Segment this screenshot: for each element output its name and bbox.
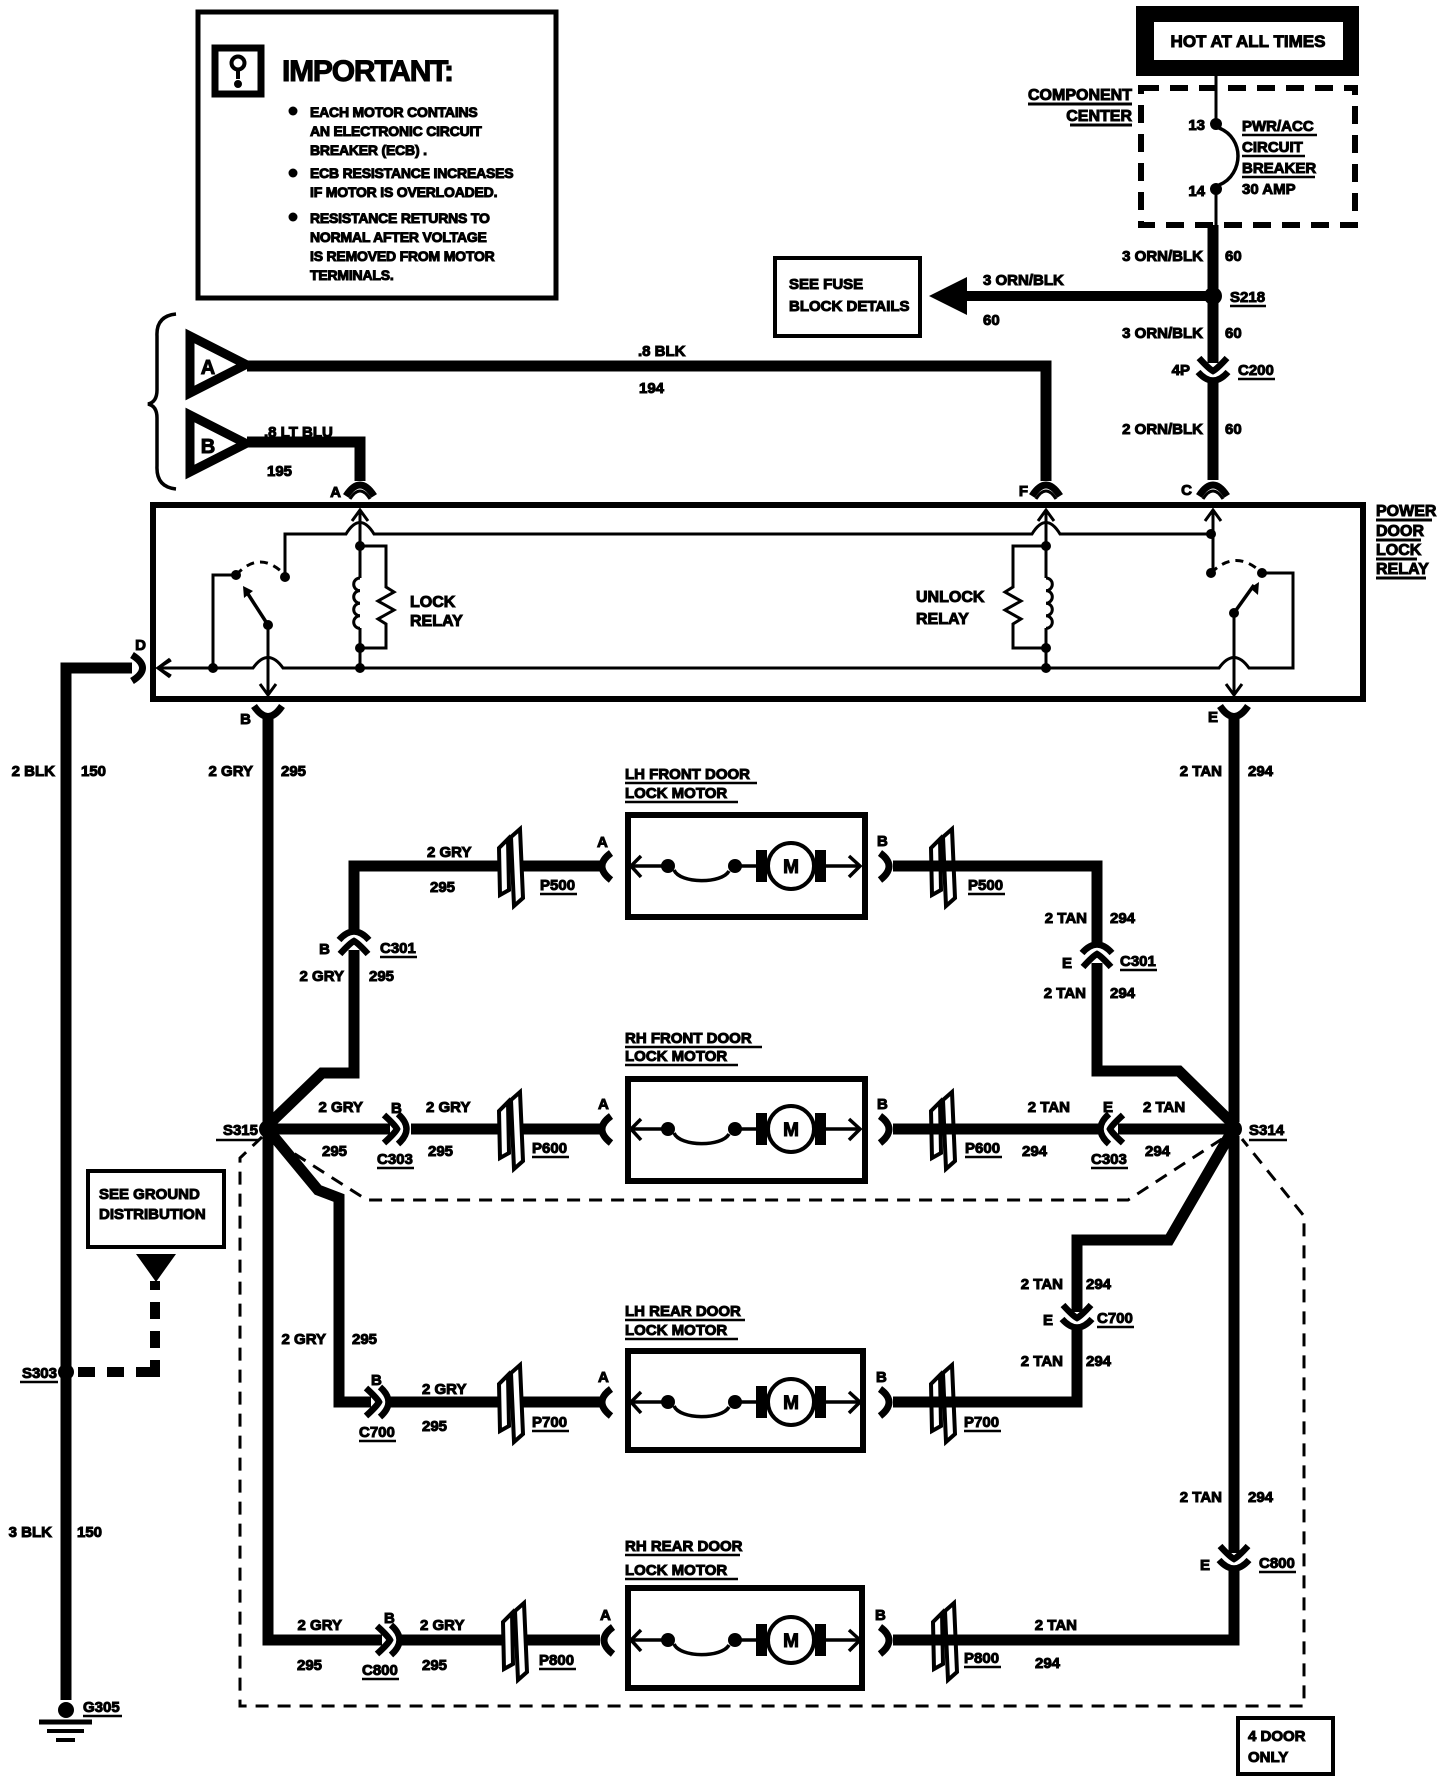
- svg-text:A: A: [600, 1607, 611, 1624]
- svg-text:295: 295: [422, 1418, 447, 1435]
- svg-text:IS REMOVED FROM MOTOR: IS REMOVED FROM MOTOR: [310, 248, 495, 264]
- svg-text:UNLOCK: UNLOCK: [916, 589, 985, 606]
- note box IMPORTANT: [198, 12, 556, 298]
- svg-text:LOCK MOTOR: LOCK MOTOR: [625, 1048, 727, 1065]
- svg-text:60: 60: [983, 312, 1000, 329]
- unlock relay coil and resistor: [916, 541, 1052, 668]
- grommet connector P600 (right): [931, 1092, 1002, 1169]
- component center dashed box: [1141, 88, 1355, 225]
- splice S303: [20, 1364, 74, 1382]
- svg-text:B: B: [391, 1100, 402, 1117]
- svg-text:C700: C700: [359, 1424, 395, 1441]
- svg-text:LOCK MOTOR: LOCK MOTOR: [625, 785, 727, 802]
- svg-text:C301: C301: [380, 940, 416, 957]
- wire 3 ORN/BLK 60 arrow to fuse block: [929, 272, 1206, 329]
- svg-text:2 TAN: 2 TAN: [1044, 985, 1086, 1002]
- svg-text:A: A: [598, 1096, 609, 1113]
- svg-text:2 TAN: 2 TAN: [1035, 1617, 1077, 1634]
- relay terminal A: [330, 484, 374, 546]
- svg-text:60: 60: [1225, 248, 1242, 265]
- svg-text:2 GRY: 2 GRY: [422, 1381, 466, 1398]
- svg-text:2 GRY: 2 GRY: [420, 1617, 464, 1634]
- svg-text:14: 14: [1188, 183, 1205, 200]
- svg-text:294: 294: [1248, 1489, 1274, 1506]
- grommet connector P600 (left): [499, 1092, 569, 1169]
- svg-text:POWER: POWER: [1376, 503, 1437, 520]
- svg-text:294: 294: [1110, 910, 1136, 927]
- svg-text:2 GRY: 2 GRY: [300, 968, 344, 985]
- svg-text:B: B: [875, 1607, 886, 1624]
- unlock relay switch: [1206, 561, 1267, 696]
- svg-text:F: F: [1019, 483, 1028, 500]
- svg-text:295: 295: [428, 1143, 453, 1160]
- wire 2 TAN 294: motor B via C301 to S314: [893, 866, 1235, 1126]
- svg-text:S218: S218: [1230, 289, 1265, 306]
- svg-text:294: 294: [1022, 1143, 1048, 1160]
- svg-text:2 TAN: 2 TAN: [1021, 1353, 1063, 1370]
- svg-text:60: 60: [1225, 421, 1242, 438]
- svg-text:P800: P800: [964, 1650, 999, 1667]
- relay internal line 1 (C feed bus): [285, 523, 1211, 578]
- svg-text:SEE FUSE: SEE FUSE: [789, 276, 863, 293]
- svg-text:2 TAN: 2 TAN: [1021, 1276, 1063, 1293]
- connector C800 (left, B): [362, 1610, 400, 1679]
- grommet triangle A: [190, 336, 246, 393]
- wire 2 ORN/BLK 60: C200 to relay terminal C: [1122, 379, 1242, 480]
- connector C303 (left, B): [377, 1100, 414, 1168]
- svg-text:295: 295: [430, 879, 455, 896]
- label POWER DOOR LOCK RELAY: [1376, 503, 1437, 578]
- wire 2 TAN 294: relay E to S314: [1180, 716, 1274, 1122]
- svg-text:E: E: [1200, 1557, 1210, 1574]
- svg-text:E: E: [1208, 709, 1218, 726]
- svg-text:2 TAN: 2 TAN: [1180, 1489, 1222, 1506]
- wire 2 BLK 150: relay D to S303 and G305: [9, 668, 132, 1700]
- wire 2 GRY 295: S315 via C301 to LH front door motor: [266, 844, 600, 1127]
- svg-text:RH REAR DOOR: RH REAR DOOR: [625, 1538, 743, 1555]
- wire 2 GRY 295: S315 via C303 to RH front door motor: [274, 1099, 600, 1160]
- svg-text:2 GRY: 2 GRY: [426, 1099, 470, 1116]
- svg-text:2 GRY: 2 GRY: [427, 844, 471, 861]
- svg-text:M: M: [783, 1393, 799, 1414]
- svg-text:E: E: [1062, 955, 1072, 972]
- svg-text:2 GRY: 2 GRY: [282, 1331, 326, 1348]
- svg-text:295: 295: [422, 1657, 447, 1674]
- svg-text:COMPONENT: COMPONENT: [1028, 87, 1132, 104]
- triangle arrow to see-ground-distribution: [136, 1254, 176, 1282]
- svg-text:LH FRONT DOOR: LH FRONT DOOR: [625, 766, 750, 783]
- svg-text:C303: C303: [1091, 1151, 1127, 1168]
- svg-text:RH FRONT DOOR: RH FRONT DOOR: [625, 1030, 752, 1047]
- svg-text:LH REAR DOOR: LH REAR DOOR: [625, 1303, 741, 1320]
- circuit breaker PWR/ACC 30A (pins 13,14): [1188, 117, 1317, 226]
- junction dots on line 2: [208, 663, 218, 673]
- svg-text:G305: G305: [83, 1699, 120, 1716]
- svg-text:IF MOTOR IS OVERLOADED.: IF MOTOR IS OVERLOADED.: [310, 184, 497, 200]
- svg-text:294: 294: [1110, 985, 1136, 1002]
- svg-text:.8 LT BLU: .8 LT BLU: [264, 424, 333, 441]
- wire 2 GRY 295: S315 via C700 to LH rear door motor: [270, 1132, 600, 1435]
- svg-text:BREAKER: BREAKER: [1242, 160, 1316, 177]
- label COMPONENT CENTER: [1028, 87, 1132, 125]
- svg-text:3 ORN/BLK: 3 ORN/BLK: [983, 272, 1064, 289]
- grommet connector P800 (left): [503, 1603, 576, 1680]
- svg-text:B: B: [371, 1372, 382, 1389]
- svg-text:C700: C700: [1097, 1310, 1133, 1327]
- connector C700 (right, E): [1043, 1305, 1134, 1329]
- note box SEE FUSE BLOCK DETAILS: [775, 258, 920, 336]
- svg-text:C800: C800: [1259, 1555, 1295, 1572]
- lock relay switch: [213, 562, 290, 695]
- svg-text:EACH MOTOR CONTAINS: EACH MOTOR CONTAINS: [310, 104, 478, 120]
- svg-text:294: 294: [1086, 1353, 1112, 1370]
- svg-text:P500: P500: [968, 877, 1003, 894]
- svg-text:TERMINALS.: TERMINALS.: [310, 267, 394, 283]
- svg-text:RELAY: RELAY: [916, 611, 969, 628]
- motor terminal A (RH rear): [600, 1607, 613, 1654]
- RH rear door lock motor: [625, 1538, 862, 1688]
- wire 3 ORN/BLK 60: breaker to S218: [1122, 225, 1242, 292]
- svg-text:BREAKER (ECB) .: BREAKER (ECB) .: [310, 142, 427, 158]
- svg-text:295: 295: [352, 1331, 377, 1348]
- svg-text:150: 150: [77, 1524, 102, 1541]
- svg-text:2 GRY: 2 GRY: [209, 763, 253, 780]
- svg-text:E: E: [1043, 1312, 1053, 1329]
- connector C200 4P: [1172, 358, 1275, 381]
- svg-text:4P: 4P: [1172, 362, 1190, 379]
- svg-text:P700: P700: [532, 1414, 567, 1431]
- svg-text:P500: P500: [540, 877, 575, 894]
- svg-text:194: 194: [639, 380, 665, 397]
- svg-text:2 ORN/BLK: 2 ORN/BLK: [1122, 421, 1203, 438]
- motor terminal A (RH front): [598, 1096, 611, 1143]
- svg-text:C301: C301: [1120, 953, 1156, 970]
- svg-text:DISTRIBUTION: DISTRIBUTION: [99, 1206, 206, 1223]
- svg-text:LOCK: LOCK: [1376, 542, 1422, 559]
- svg-text:LOCK MOTOR: LOCK MOTOR: [625, 1322, 727, 1339]
- svg-text:2 TAN: 2 TAN: [1045, 910, 1087, 927]
- svg-text:RELAY: RELAY: [410, 613, 463, 630]
- svg-text:2 GRY: 2 GRY: [298, 1617, 342, 1634]
- power door lock relay box: [153, 505, 1363, 699]
- LH front door lock motor: [625, 766, 865, 917]
- svg-text:2 TAN: 2 TAN: [1180, 763, 1222, 780]
- motor terminal A (LH front): [597, 834, 611, 880]
- svg-text:LOCK: LOCK: [410, 594, 456, 611]
- svg-text:A: A: [201, 357, 215, 379]
- motor terminal B (LH front): [877, 833, 889, 880]
- svg-text:CIRCUIT: CIRCUIT: [1242, 139, 1303, 156]
- connector C303 (right, E): [1091, 1099, 1128, 1168]
- svg-text:HOT AT ALL TIMES: HOT AT ALL TIMES: [1171, 32, 1326, 51]
- motor terminal A (LH rear): [598, 1369, 611, 1416]
- grommet connector P700 (right): [931, 1365, 1001, 1442]
- wire .8 LT BLU 195: triangle B to relay terminal A: [247, 424, 360, 481]
- svg-text:B: B: [877, 833, 888, 850]
- svg-text:3 ORN/BLK: 3 ORN/BLK: [1122, 248, 1203, 265]
- svg-text:M: M: [783, 857, 799, 878]
- svg-text:4 DOOR: 4 DOOR: [1248, 1728, 1306, 1745]
- svg-text:3 BLK: 3 BLK: [9, 1524, 53, 1541]
- svg-text:C303: C303: [377, 1151, 413, 1168]
- LH rear door lock motor: [625, 1303, 863, 1450]
- motor terminal B (RH front): [877, 1096, 889, 1143]
- motor terminal B (RH rear): [875, 1607, 889, 1654]
- connector C800 (right, E): [1200, 1546, 1296, 1574]
- wire 2 TAN 294: S314 via C700 to LH rear motor B: [893, 1133, 1231, 1402]
- svg-text:294: 294: [1086, 1276, 1112, 1293]
- svg-text:A: A: [598, 1369, 609, 1386]
- wire 2 GRY 295: S315 via C800 to RH rear door motor: [268, 1136, 600, 1674]
- svg-text:2 TAN: 2 TAN: [1143, 1099, 1185, 1116]
- svg-text:B: B: [319, 941, 330, 958]
- grommet connector P700 (left): [499, 1365, 569, 1442]
- svg-text:SEE GROUND: SEE GROUND: [99, 1186, 200, 1203]
- svg-text:ONLY: ONLY: [1248, 1749, 1288, 1766]
- svg-text:B: B: [876, 1369, 887, 1386]
- wire: HOT box to breaker pin 13: [1215, 76, 1218, 120]
- grommet connector P500 (right): [931, 829, 1005, 906]
- svg-text:A: A: [597, 834, 608, 851]
- power feed box HOT AT ALL TIMES: [1136, 6, 1359, 76]
- svg-text:P700: P700: [964, 1414, 999, 1431]
- svg-text:150: 150: [81, 763, 106, 780]
- svg-text:BLOCK DETAILS: BLOCK DETAILS: [789, 298, 910, 315]
- svg-text:13: 13: [1188, 117, 1205, 134]
- dashed boundary 4 door only: [240, 1137, 1304, 1706]
- svg-text:294: 294: [1145, 1143, 1171, 1160]
- svg-text:M: M: [783, 1120, 799, 1141]
- svg-text:B: B: [240, 711, 251, 728]
- svg-text:2 GRY: 2 GRY: [319, 1099, 363, 1116]
- svg-text:295: 295: [297, 1657, 322, 1674]
- connector C301 (right, E): [1062, 945, 1157, 973]
- svg-text:D: D: [135, 637, 146, 654]
- splice S314: [1224, 1120, 1287, 1140]
- note box SEE GROUND DISTRIBUTION: [88, 1171, 224, 1247]
- svg-text:P800: P800: [539, 1652, 574, 1669]
- splice S218: [1204, 287, 1266, 306]
- svg-text:A: A: [330, 484, 341, 501]
- svg-text:RESISTANCE RETURNS TO: RESISTANCE RETURNS TO: [310, 210, 490, 226]
- relay internal line 2 (common bus from D): [159, 573, 1293, 668]
- svg-text:RELAY: RELAY: [1376, 561, 1429, 578]
- splice S315: [216, 1120, 277, 1140]
- svg-text:AN ELECTRONIC CIRCUIT: AN ELECTRONIC CIRCUIT: [310, 123, 482, 139]
- svg-text:294: 294: [1248, 763, 1274, 780]
- svg-text:195: 195: [267, 463, 292, 480]
- svg-text:294: 294: [1035, 1655, 1061, 1672]
- svg-text:C: C: [1181, 482, 1192, 499]
- junction dot on C vertical: [1206, 529, 1216, 539]
- wire 2 TAN 294: S314 via C800 to RH rear motor B: [893, 1136, 1274, 1672]
- connector C700 (left, B): [359, 1372, 396, 1441]
- relay terminal D: [132, 637, 171, 681]
- svg-text:3 ORN/BLK: 3 ORN/BLK: [1122, 325, 1203, 342]
- svg-text:S314: S314: [1249, 1122, 1285, 1139]
- dashed wire: S303 to ground distribution: [78, 1281, 157, 1377]
- svg-text:DOOR: DOOR: [1376, 523, 1424, 540]
- svg-text:P600: P600: [532, 1140, 567, 1157]
- svg-text:S303: S303: [22, 1365, 57, 1382]
- svg-text:C200: C200: [1238, 362, 1274, 379]
- svg-text:ECB RESISTANCE INCREASES: ECB RESISTANCE INCREASES: [310, 165, 513, 181]
- wire 2 GRY 295: relay B to S315: [209, 716, 307, 1122]
- svg-text:CENTER: CENTER: [1066, 108, 1132, 125]
- svg-text:295: 295: [322, 1143, 347, 1160]
- connector C301 (left, B): [300, 932, 417, 986]
- svg-text:IMPORTANT:: IMPORTANT:: [282, 55, 453, 88]
- note box 4 DOOR ONLY: [1238, 1718, 1333, 1774]
- brace: [148, 314, 176, 489]
- relay terminal B: [240, 684, 282, 728]
- svg-text:B: B: [877, 1096, 888, 1113]
- svg-text:C800: C800: [362, 1662, 398, 1679]
- svg-text:M: M: [783, 1631, 799, 1652]
- svg-text:B: B: [201, 436, 215, 458]
- svg-text:S315: S315: [223, 1122, 258, 1139]
- svg-text:E: E: [1103, 1099, 1113, 1116]
- svg-text:2 TAN: 2 TAN: [1028, 1099, 1070, 1116]
- ground G305: [39, 1699, 122, 1740]
- relay terminal F: [1019, 483, 1060, 546]
- RH front door lock motor: [625, 1030, 865, 1181]
- svg-text:60: 60: [1225, 325, 1242, 342]
- lock relay coil and resistor: [354, 541, 463, 668]
- svg-text:.8 BLK: .8 BLK: [638, 343, 686, 360]
- svg-text:B: B: [384, 1610, 395, 1627]
- svg-text:295: 295: [369, 968, 394, 985]
- motor terminal B (LH rear): [876, 1369, 889, 1416]
- grommet triangle B: [190, 415, 246, 472]
- svg-text:295: 295: [281, 763, 306, 780]
- wire .8 BLK 194: triangle A to relay terminal F: [247, 343, 1046, 481]
- arrow at D end of line 2: [158, 659, 170, 677]
- svg-text:PWR/ACC: PWR/ACC: [1242, 118, 1314, 135]
- svg-text:30 AMP: 30 AMP: [1242, 181, 1296, 198]
- wire 2 TAN 294: motor B via C303 to S314: [893, 1099, 1226, 1160]
- svg-text:LOCK MOTOR: LOCK MOTOR: [625, 1562, 727, 1579]
- grommet connector P800 (right): [933, 1603, 1001, 1680]
- wire 3 ORN/BLK 60: S218 to C200: [1122, 300, 1242, 363]
- svg-text:2 BLK: 2 BLK: [12, 763, 56, 780]
- svg-text:P600: P600: [965, 1140, 1000, 1157]
- svg-text:NORMAL AFTER VOLTAGE: NORMAL AFTER VOLTAGE: [310, 229, 487, 245]
- relay terminal E: [1208, 684, 1248, 726]
- grommet connector P500 (left): [499, 829, 577, 906]
- relay terminal C: [1181, 482, 1227, 573]
